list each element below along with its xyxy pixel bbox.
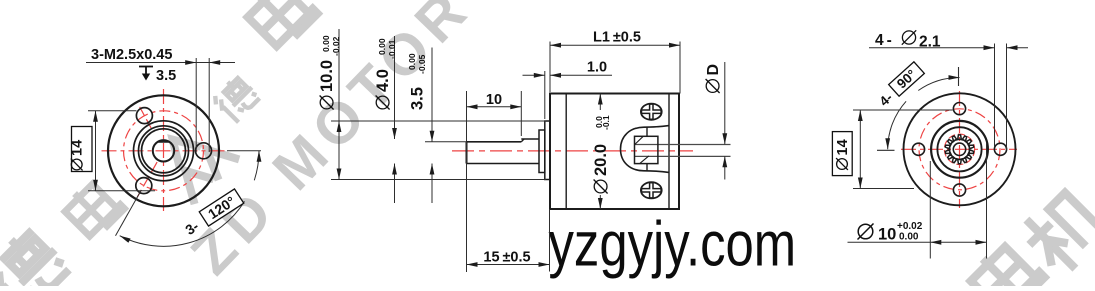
right view red horizontal center line (901, 148, 1017, 150)
screw bottom cross slot (642, 183, 662, 198)
dimension 10 extension line left tall (466, 91, 468, 272)
gearbox body outline (550, 94, 679, 210)
label Ø10 fit (858, 221, 923, 244)
svg-text:0.00: 0.00 (899, 232, 919, 243)
rear shaft stub bottom line (635, 155, 731, 157)
dimension Ø4.0 line upper (394, 36, 396, 139)
dimension 90 extension line left (877, 149, 895, 151)
svg-text:L1 ±0.5: L1 ±0.5 (593, 30, 641, 46)
right view inner ring circle (937, 127, 981, 171)
right view red gear pitch circle (944, 134, 974, 164)
dimension Ø4.0 line lower (394, 164, 396, 204)
dimension Ø10.0 extension line bottom (331, 179, 546, 181)
dimension 120 angle arc (120, 201, 245, 246)
left view mounting hole upper-left (136, 108, 152, 124)
dimension 1.0 right tail (550, 74, 612, 76)
dimension 1.0 extension line (544, 71, 546, 119)
dimension Ø14 line (95, 111, 97, 191)
label 3-120 group (181, 189, 244, 238)
dimension Ø14 right view line (859, 110, 861, 189)
svg-text:10: 10 (878, 226, 896, 244)
svg-text:14: 14 (835, 139, 851, 155)
dimension Ø10 fit line (848, 241, 987, 243)
motor terminal tab outline (621, 126, 670, 173)
rear shaft stub top line (635, 144, 731, 146)
left view outer body circle Ø20 (108, 95, 219, 206)
screw top cross slot (642, 104, 662, 119)
right view red bolt circle (919, 109, 1000, 190)
connector notch top (635, 136, 644, 144)
dimension 1.0 left tail (523, 74, 545, 76)
dimension 3-M2.5x0.45 leader line (86, 62, 235, 64)
left view boss circle Ø10 (139, 126, 189, 176)
svg-text:1.0: 1.0 (587, 60, 607, 76)
left view shaft circle Ø4 (153, 140, 174, 161)
dimension 120 angle radial line (116, 190, 142, 236)
left view step circle (134, 121, 194, 181)
watermark CJK glyphs bottom-right (966, 237, 1045, 291)
right view hole right (994, 143, 1006, 155)
svg-text:3-M2.5x0.45: 3-M2.5x0.45 (91, 47, 172, 63)
dimension Ø14 arrow top (93, 111, 98, 122)
svg-text:15 ±0.5: 15 ±0.5 (483, 250, 530, 266)
shaft retaining washer (539, 130, 545, 173)
watermark CJK glyph top (243, 0, 318, 50)
left view mounting hole lower-left (136, 178, 152, 194)
connector notch bottom (640, 156, 649, 164)
dimension 3-M2.5x0.45 extension line left (195, 58, 197, 152)
dimension 90 extension line top (958, 67, 960, 86)
shaft top line (521, 138, 539, 140)
svg-text:0.00: 0.00 (377, 38, 387, 55)
label Ø14 right view text (835, 139, 851, 170)
svg-text:14: 14 (70, 140, 86, 156)
dimension L1 line (550, 44, 680, 46)
dimension Ø14 extension line top (88, 110, 137, 112)
dimension 3-M2.5x0.45 extension line right (208, 58, 210, 152)
svg-text:10: 10 (486, 92, 502, 108)
dimension 3-M2.5x0.45 arrow right (209, 60, 220, 65)
svg-text:-0.01: -0.01 (387, 39, 397, 59)
left view red horizontal center line (102, 150, 229, 152)
dimension 90 degree arc (918, 78, 959, 91)
dimension L1 extension lines (549, 42, 551, 93)
svg-text:+0.02: +0.02 (897, 221, 923, 232)
label Ø10.0 with tolerance (318, 35, 341, 109)
dimension Ø10 fit extension lines (929, 161, 931, 259)
motor pinion gear (945, 135, 973, 164)
terminal connector rectangle (635, 136, 658, 163)
dimension 90 arrow top (949, 75, 960, 80)
shaft flat line (467, 141, 522, 143)
svg-text:-0.1: -0.1 (601, 115, 611, 130)
dimension Ø10.0 line (338, 29, 340, 180)
dimension ØD line upper (724, 62, 726, 144)
left view red vertical center line (163, 89, 165, 211)
label Ø14 text (70, 140, 86, 171)
shaft bottom line (467, 163, 540, 165)
gearbox front plate line (565, 94, 567, 210)
left view mounting hole right (196, 143, 212, 159)
right view hole left (912, 143, 924, 155)
dimension 10 line (467, 106, 522, 108)
right view hole top (953, 103, 965, 115)
right view hole bottom (953, 184, 965, 196)
svg-text:10.0: 10.0 (318, 60, 336, 92)
dimension 10 extension line right (520, 91, 522, 136)
watermark diagonal CJK row bottom-left (0, 223, 75, 291)
shaft tip face (466, 142, 468, 164)
middle view red center line (452, 150, 693, 152)
dimension 120 angle extension line horizontal (227, 150, 261, 152)
dimension 3.5 line upper (431, 48, 433, 142)
right view outer circle (904, 93, 1016, 205)
svg-text:4.0: 4.0 (374, 69, 392, 92)
screw bottom head (641, 182, 662, 198)
dimension ØD line lower (724, 156, 726, 179)
dimension 4-Ø2.1 line (869, 47, 995, 49)
dimension Ø14 arrow bottom (93, 180, 98, 191)
svg-text:-0.05: -0.05 (417, 54, 427, 74)
dimension 3-M2.5x0.45 arrow left (185, 60, 196, 65)
label 4-90 group (875, 62, 925, 109)
dimension 120 angle arrow at horizontal (257, 151, 262, 162)
svg-text:2.1: 2.1 (919, 34, 941, 51)
dimension Ø14 extension line bottom (88, 190, 155, 192)
svg-text:3.5: 3.5 (409, 87, 427, 110)
depth symbol (139, 66, 153, 68)
left view red radial center line upper hole (138, 104, 151, 128)
right view red vertical center line (959, 91, 961, 208)
motor rear plate line (668, 94, 670, 210)
dimension Ø10.0 extension line top (331, 120, 546, 122)
left view boss chamfer circle (142, 129, 186, 173)
label Ø14 right view box (832, 132, 852, 176)
dimension 15±0.5 line (467, 264, 550, 266)
label Ø20.0 with tolerance (592, 115, 611, 193)
motor shaft hub circle (953, 143, 965, 155)
svg-text:3.5: 3.5 (156, 68, 176, 84)
label 3.5 with tolerance (407, 53, 427, 110)
front boss Ø10 (545, 121, 550, 180)
dimension 90 arrow left (885, 138, 890, 149)
screw top head (641, 104, 662, 120)
svg-text:4-: 4- (876, 90, 895, 109)
svg-text:20.0: 20.0 (592, 144, 610, 176)
shaft flat step (521, 139, 524, 142)
svg-text:0.00: 0.00 (407, 53, 417, 70)
dimension Ø20.0 line (599, 94, 601, 111)
dimension 3.5 extension line (425, 141, 467, 143)
dimension 3.5 line lower (431, 164, 433, 204)
dimension 120 angle arrow at radial (120, 236, 131, 243)
dimension 15±0.5 extension line right (549, 209, 551, 272)
label Ø14 box (72, 127, 93, 172)
dimension 4-Ø2.1 extension lines (994, 44, 996, 147)
left view shaft flat chord (158, 141, 169, 143)
label ØD (705, 64, 722, 93)
svg-text:-0.02: -0.02 (331, 36, 341, 56)
label 4-Ø2.1 (875, 30, 941, 50)
label Ø4.0 with tolerance (374, 38, 397, 109)
connector vertical stub top (646, 128, 648, 137)
left view red radial center line lower hole (137, 162, 157, 197)
svg-text:yzgyjy.com: yzgyjy.com (549, 209, 797, 279)
left view red bolt circle Ø14 (124, 111, 204, 191)
svg-text:4-: 4- (875, 32, 895, 49)
svg-text:D: D (705, 64, 722, 76)
connector vertical stub bottom (646, 164, 648, 171)
svg-text:0.00: 0.00 (321, 35, 331, 52)
right view pilot circle Ø10 (931, 121, 988, 178)
dimension Ø14 right view extension lines (853, 109, 953, 111)
